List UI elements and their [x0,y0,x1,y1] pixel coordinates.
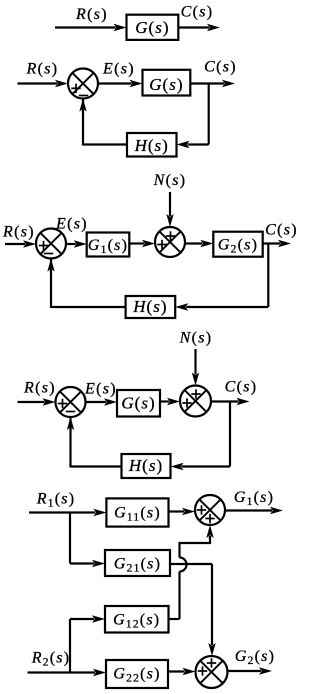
svg-text:G(s): G(s) [149,75,183,94]
wire N into SB d4 [192,349,199,386]
svg-text:G1(s): G1(s) [234,489,274,508]
svg-text:C(s): C(s) [265,222,298,239]
label C(s) d1 [181,4,214,21]
summing junction SA [56,387,86,417]
sign plus S2 [71,84,80,93]
wire R1 to G11 [29,509,106,516]
summing junction S2 [68,69,98,99]
label E(s) d3 [55,216,88,233]
block G(s) d2 [143,70,191,96]
wire S2 to G d2 [98,80,143,87]
label N(s) d3 [153,172,187,189]
block G11(s) [106,498,168,526]
svg-text:R(s): R(s) [26,61,59,78]
wire G22 to S52 [168,668,196,675]
label R(s) d4 [23,380,56,397]
svg-text:G1(s): G1(s) [88,237,128,256]
label R(s) d3 [2,224,35,241]
wire output C(s) d2 [190,80,235,87]
sign plus top S52 [207,658,216,667]
sign plus top SB [191,389,200,398]
svg-text:G(s): G(s) [121,393,155,412]
sign plus SA [58,399,67,408]
block H(s) d3 [126,296,176,318]
label C(s) d3 [265,222,298,239]
label C(s) d2 [204,59,237,76]
wire output d1 [178,24,220,31]
wire G to SB d4 [160,398,180,405]
block H(s) d2 [127,133,177,157]
block G22(s) [106,660,168,688]
label C(s) d4 [225,379,258,396]
block H(s) d4 [122,454,171,478]
sign plus left SN [157,240,166,249]
wire output G1(s) [225,507,283,514]
wire output C(s) d3 [263,240,291,247]
wire into H d2 [177,141,209,148]
summing junction S51 [195,495,225,525]
block G12(s) [105,606,169,633]
block G(s) d1 [127,15,179,40]
block G1(s) [87,233,130,257]
sign plus left S52 [198,666,207,675]
block G21(s) [105,550,170,576]
wire input d2 [18,80,69,87]
svg-text:C(s): C(s) [225,379,258,396]
wire input d3 [5,240,36,247]
wire SN to G2 [185,240,213,247]
svg-text:R(s): R(s) [2,224,35,241]
wire branch down d3 [267,244,269,308]
sign plus bottom S51 [205,514,214,523]
wire H to S3 d3 [47,259,125,309]
label G2(s) [235,648,275,667]
wire input d1 [55,24,127,31]
svg-text:H(s): H(s) [134,136,169,155]
label N(s) d4 [179,330,213,347]
svg-text:R1(s): R1(s) [36,491,75,510]
sign plus top SN [166,231,175,240]
svg-text:E(s): E(s) [84,381,117,398]
wire G21 to S52 [170,564,216,656]
label R(s) d1 [75,6,108,23]
sign minus S3 [44,253,53,255]
wire N into SN d3 [166,192,173,227]
wire input d4 [18,398,56,405]
wire branch down d2 [208,84,210,145]
block G2(s) [213,232,262,257]
svg-text:C(s): C(s) [204,59,237,76]
label G1(s) [234,489,274,508]
label R2(s) [31,650,70,669]
label R1(s) [36,491,75,510]
sign plus S3 [39,241,48,250]
svg-text:C(s): C(s) [181,4,214,21]
wire output G2(s) [228,667,273,674]
wire R1 tap to G21 [70,513,105,568]
label E(s) d2 [102,60,135,77]
label E(s) d4 [84,381,117,398]
svg-text:R(s): R(s) [23,380,56,397]
wire R2 to G22 [28,669,107,676]
wire G11 to S51 [169,508,196,515]
sign minus SA [66,411,75,413]
wire into H d4 [171,463,231,470]
wire H to SA d4 [67,417,122,468]
summing junction S52 [196,656,228,688]
svg-text:E(s): E(s) [102,60,135,77]
summing junction S3 [36,229,66,259]
wire branch down d4 [229,402,231,467]
wire output C(s) d4 [211,398,250,405]
sign minus S2 [79,95,88,97]
svg-text:N(s): N(s) [179,330,213,347]
svg-text:N(s): N(s) [153,172,187,189]
wire G1 to SN [129,240,155,247]
block G(s) d4 [117,390,160,417]
wire G12 to S51 with hop [169,525,214,619]
wire S3 to G1 [66,240,87,247]
sign plus left S51 [197,505,206,514]
label R(s) d2 [26,61,59,78]
svg-text:H(s): H(s) [132,297,167,316]
svg-text:E(s): E(s) [55,216,88,233]
svg-text:G2(s): G2(s) [218,237,258,256]
sign plus left SB [182,398,191,407]
summing junction SN [155,227,185,257]
wire into H d3 [175,303,268,310]
svg-text:H(s): H(s) [128,456,163,475]
svg-text:G(s): G(s) [135,18,169,37]
summing junction SB [180,386,211,417]
wire H to S2 d2 [79,99,127,146]
wire R2 tap to G12 [70,615,105,672]
wire SA to G d4 [86,398,118,405]
svg-text:G2(s): G2(s) [235,648,275,667]
svg-text:R(s): R(s) [75,6,108,23]
svg-text:R2(s): R2(s) [31,650,70,669]
